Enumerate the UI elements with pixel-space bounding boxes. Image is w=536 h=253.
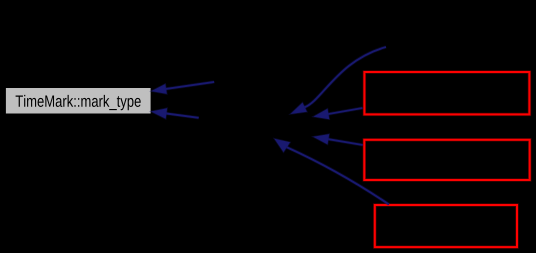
wire edge into grey node, upper arrow (151, 82, 214, 94)
wire edge from bottom-right red node (274, 139, 389, 205)
wire edge from top-right red node (313, 108, 362, 119)
wire edge from middle-right red node (313, 134, 363, 145)
node truncated (red border) top right (364, 72, 529, 114)
wire edge into grey node, lower arrow (151, 108, 199, 119)
node TimeMark::mark_type (current node, grey box) (6, 88, 151, 114)
wire curved edge from upper right (291, 47, 387, 114)
node truncated (red border) middle right (364, 140, 529, 180)
node truncated (red border) bottom right (375, 205, 517, 247)
